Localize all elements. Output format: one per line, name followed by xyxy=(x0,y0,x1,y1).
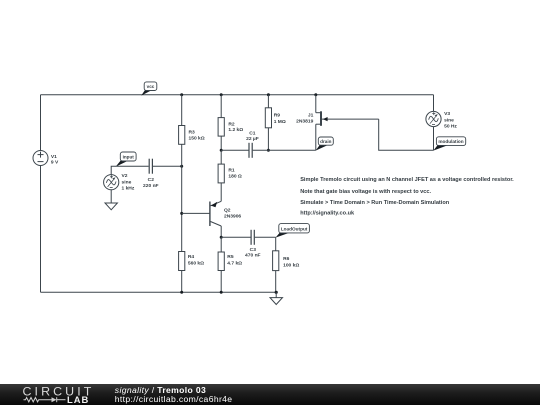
svg-text:R6: R6 xyxy=(283,256,290,262)
resistor R5 xyxy=(218,252,242,271)
transistor J1 (JFET 2N3819) xyxy=(296,95,379,126)
footer title xyxy=(115,386,233,404)
node: vcc/J1 xyxy=(314,93,317,96)
source V3 xyxy=(426,111,458,129)
flag LoadOutput xyxy=(276,224,310,238)
wire: V2 bottom lead xyxy=(110,190,112,203)
wire: V1 top lead xyxy=(40,95,42,151)
node: vcc/R3 xyxy=(180,93,183,96)
wire: ground rail xyxy=(41,291,277,293)
wire: V1 bottom lead xyxy=(40,166,42,293)
svg-text:http://signality.co.uk: http://signality.co.uk xyxy=(300,211,355,217)
svg-text:sine: sine xyxy=(122,179,132,185)
wire: R3 top lead xyxy=(181,95,183,126)
svg-text:R2: R2 xyxy=(228,121,235,127)
svg-text:1.2 kΩ: 1.2 kΩ xyxy=(228,127,243,133)
svg-text:Input: Input xyxy=(123,154,135,159)
note text xyxy=(300,177,514,217)
svg-text:C2: C2 xyxy=(148,177,155,183)
wire: C1 right to J1 source xyxy=(253,149,316,151)
svg-text:50 Hz: 50 Hz xyxy=(444,124,457,130)
wire: C1 left xyxy=(221,149,248,151)
wire: R1 to Q2 emitter xyxy=(220,183,222,201)
flag modulation xyxy=(433,137,465,151)
ground (V2) xyxy=(105,203,117,210)
svg-text:V2: V2 xyxy=(122,173,128,179)
wire: R6 top lead xyxy=(275,237,277,251)
svg-text:modulation: modulation xyxy=(438,139,463,144)
capacitor C2 xyxy=(143,159,159,189)
node: vcc/R9 xyxy=(267,93,270,96)
svg-text:LoadOutput: LoadOutput xyxy=(281,226,308,231)
svg-text:470 nF: 470 nF xyxy=(245,253,261,259)
node: R4/ground rail xyxy=(180,291,183,294)
svg-text:2N3819: 2N3819 xyxy=(296,119,313,125)
svg-text:150 kΩ: 150 kΩ xyxy=(189,135,205,141)
svg-text:V1: V1 xyxy=(51,154,57,160)
svg-text:V3: V3 xyxy=(444,111,450,117)
wire: R5 bottom lead xyxy=(220,271,222,293)
flag vcc xyxy=(141,82,157,96)
source V1 xyxy=(33,151,59,166)
wire: R1 top lead xyxy=(220,150,222,164)
resistor R4 xyxy=(179,252,205,271)
svg-text:4.7 kΩ: 4.7 kΩ xyxy=(227,261,242,267)
node: C2/R3 junction xyxy=(180,165,183,168)
svg-text:C1: C1 xyxy=(249,130,256,136)
node: R6/ground xyxy=(275,291,278,294)
svg-text:1 MΩ: 1 MΩ xyxy=(274,119,286,125)
wire: collector to C3 xyxy=(221,236,250,238)
wire: V3 bottom lead xyxy=(433,127,435,151)
footer bar xyxy=(0,384,540,405)
svg-text:R9: R9 xyxy=(274,112,281,118)
wire: C2 to R3 column xyxy=(153,165,182,167)
resistor R3 xyxy=(179,126,205,145)
wire: R9 bottom lead xyxy=(267,128,269,151)
wire: R2 bottom lead xyxy=(220,136,222,150)
svg-text:R3: R3 xyxy=(189,130,196,136)
wire: C3 to LoadOutput node xyxy=(255,236,276,238)
transistor Q2 xyxy=(210,201,242,226)
ground (output) xyxy=(270,292,283,304)
svg-text:R5: R5 xyxy=(227,254,234,260)
wire: R5 top lead xyxy=(220,237,222,252)
node: collector/C3 junction xyxy=(220,236,223,239)
wire: gate to modulation net xyxy=(379,119,434,150)
wire: V2 top lead xyxy=(111,166,148,174)
svg-text:LAB: LAB xyxy=(67,394,89,405)
wire: Q2 base xyxy=(182,212,210,214)
wire: vcc top rail xyxy=(41,94,434,96)
flag Input xyxy=(116,152,137,167)
capacitor C1 xyxy=(246,130,259,158)
svg-text:drain: drain xyxy=(320,139,331,144)
svg-text:22 µF: 22 µF xyxy=(246,136,259,142)
node: R5/ground rail xyxy=(220,291,223,294)
svg-text:220 nF: 220 nF xyxy=(143,183,159,189)
node: R9/C1 wire xyxy=(267,149,270,152)
flag drain xyxy=(316,137,334,151)
resistor R1 xyxy=(218,164,242,183)
capacitor C3 xyxy=(245,230,261,259)
svg-text:J1: J1 xyxy=(308,113,314,119)
node: base junction xyxy=(180,212,183,215)
svg-text:560 kΩ: 560 kΩ xyxy=(188,261,204,267)
svg-text:C3: C3 xyxy=(250,247,257,253)
svg-text:Note that gate bias voltage is: Note that gate bias voltage is with resp… xyxy=(300,189,431,195)
wire: R6 bottom lead xyxy=(275,271,277,293)
wire: R3 to R4 xyxy=(181,144,183,251)
wire: V3 top lead xyxy=(433,95,435,112)
wire: R4 bottom lead xyxy=(181,271,183,293)
node: R2/C1/R1 junction xyxy=(220,149,223,152)
svg-text:vcc: vcc xyxy=(147,84,155,89)
svg-text:R4: R4 xyxy=(188,254,195,260)
svg-text:180 Ω: 180 Ω xyxy=(228,173,242,179)
resistor R9 xyxy=(265,108,286,128)
svg-text:100 kΩ: 100 kΩ xyxy=(283,262,299,268)
svg-text:2N3906: 2N3906 xyxy=(224,214,241,220)
svg-text:Simple Tremolo circuit using a: Simple Tremolo circuit using an N channe… xyxy=(300,177,514,183)
resistor R2 xyxy=(218,118,243,137)
node: vcc/R2 xyxy=(220,93,223,96)
CircuitLab logo xyxy=(0,384,100,405)
svg-text:9 V: 9 V xyxy=(51,160,59,166)
svg-text:1 kHz: 1 kHz xyxy=(122,186,135,192)
source V2 xyxy=(104,173,135,191)
svg-text:Simulate > Time Domain > Run T: Simulate > Time Domain > Run Time-Domain… xyxy=(300,200,450,206)
wire: R9 top lead xyxy=(267,95,269,108)
wire: R2 top lead xyxy=(220,95,222,118)
resistor R6 xyxy=(273,251,300,271)
wire: Q2 collector lead xyxy=(220,226,222,237)
svg-text:Q2: Q2 xyxy=(224,208,231,214)
svg-text:R1: R1 xyxy=(228,168,235,174)
svg-text:sine: sine xyxy=(444,117,454,123)
wire: J1 source down xyxy=(315,124,317,150)
